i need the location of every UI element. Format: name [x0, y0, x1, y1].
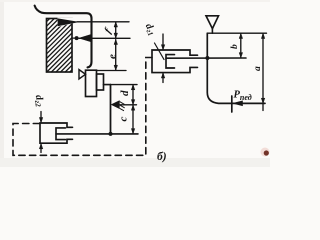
pedal foot tick [231, 96, 233, 112]
svg-text:c: c [118, 117, 130, 122]
master cylinder piston (bracket) [166, 55, 175, 68]
extension line top (a/b top) [207, 32, 266, 34]
dimension a (vertical, arrows both ends) [261, 34, 264, 111]
beam from flange to lower lever [104, 84, 111, 86]
lower lever L2 (vertical bar) [110, 85, 112, 134]
pedal lever L1 (left clutch pedal, hooked top bar and down-stem) [35, 6, 92, 68]
wall bracket (hatched support block) [47, 19, 73, 73]
pin joint of lever to wall (dot) [75, 36, 79, 40]
bearing body (tall rectangle) [86, 70, 97, 96]
svg-text:d: d [119, 90, 131, 96]
svg-text:a: a [253, 66, 263, 71]
slave cylinder d_r2 body (stepped outline) [40, 123, 73, 143]
extension line through pin (f bottom / e top) [79, 37, 130, 39]
brake pedal pad (triangle) [206, 16, 219, 29]
hydraulic pipe (dashed) from master cylinder to slave cylinder [13, 58, 152, 156]
wall hatching [47, 19, 73, 73]
dimension b (vertical, arrows both ends) [239, 34, 242, 58]
extension line at fulcrum (d bottom / c top) [120, 104, 137, 106]
pedal pad stem [211, 29, 213, 34]
master cylinder d_r1 body (stepped outline) [152, 50, 198, 73]
svg-text:e: e [107, 54, 119, 59]
junction of rod and lower lever (node) [109, 132, 113, 136]
slave cylinder piston (bracket) [56, 128, 66, 140]
master cylinder rod to pedal lever (wire) [166, 57, 246, 59]
svg-text:b: b [230, 44, 240, 49]
paper background [0, 0, 270, 167]
fulcrum of lower lever (filled triangle with hatching) [112, 101, 120, 109]
dimension e (vertical, arrows both ends) [114, 40, 117, 70]
wall contact gusset (filled wedge at block corner) [58, 18, 79, 27]
pedal lever L3 (vertical, curving right at bottom) [207, 33, 265, 103]
extension line (d top) [111, 84, 138, 86]
bore dimension arrows d_r2 [39, 112, 42, 153]
leader line of label d_r1 [155, 43, 165, 60]
dimension f (vertical, arrows both ends) [114, 22, 117, 38]
svg-text:б): б) [157, 151, 167, 163]
force arrow P_ped (filled, apex left at tick) [233, 101, 243, 106]
slave cylinder push rod to lower lever (wire) [56, 133, 138, 135]
bore dimension arrows d_r1 [161, 34, 164, 83]
red ink dot artifact [264, 150, 269, 155]
dimension c (vertical, arrows both ends) [131, 105, 134, 133]
dimension d (vertical, arrows both ends) [131, 85, 134, 104]
pin arrow on lever (filled, apex left at pin) [79, 35, 91, 42]
release bearing push rod tip (hollow triangle) [79, 70, 86, 79]
junction of rod and pedal lever (node) [205, 56, 209, 60]
extension line from wall contact (f top) [77, 21, 129, 23]
extension line at bearing top (e bottom) [97, 70, 127, 72]
bearing flange (small rectangle at right) [97, 74, 104, 90]
